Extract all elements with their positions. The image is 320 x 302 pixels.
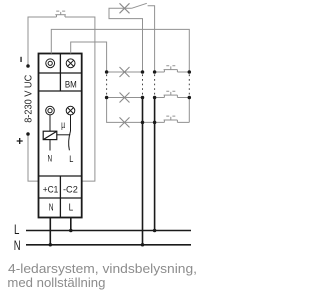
svg-text:µ: µ bbox=[61, 120, 65, 131]
device U1: impulse relay BM, outer case bbox=[39, 54, 82, 218]
push button S1 bbox=[164, 66, 178, 72]
wire: device N terminal to N bus bbox=[49, 218, 51, 245]
svg-text:L: L bbox=[69, 153, 73, 164]
node: plus supply terminal dot bbox=[26, 132, 30, 136]
wire: top lamp terminal to lamp left rail bbox=[71, 42, 107, 72]
dashed rail continuation segments bbox=[107, 74, 190, 95]
label: plus polarity mark bbox=[17, 138, 23, 144]
svg-text:L: L bbox=[69, 202, 74, 213]
switch S4 master (arm open) bbox=[132, 3, 147, 8]
lamp row 1: wire bbox=[107, 71, 143, 73]
svg-text:-C2: -C2 bbox=[63, 185, 78, 195]
lamp E3 bbox=[120, 117, 130, 127]
svg-text:4-ledarsystem, vindsbelysning,: 4-ledarsystem, vindsbelysning, bbox=[8, 261, 197, 276]
relay coil K1 bbox=[43, 131, 57, 139]
wire: minus supply up to reset button bbox=[28, 17, 57, 66]
push button S2 bbox=[164, 91, 178, 97]
terminal symbol: body screw terminal (double circle) bbox=[46, 106, 55, 115]
lamp E2 bbox=[120, 93, 130, 103]
button row 1: wires bbox=[155, 71, 190, 73]
label: minus polarity mark (rotated) bbox=[20, 57, 21, 62]
lamp E1 bbox=[120, 67, 130, 77]
button row 2: wires bbox=[155, 97, 190, 99]
wire: device L terminal to L bus bbox=[70, 218, 72, 231]
svg-text:med nollställning: med nollställning bbox=[7, 275, 105, 290]
svg-text:+C1: +C1 bbox=[43, 185, 59, 195]
wire: lamp terminal down to contact bbox=[70, 115, 72, 131]
svg-text:BM: BM bbox=[65, 78, 77, 89]
lamp row 2: wire bbox=[107, 97, 143, 99]
net N: neutral bus bbox=[26, 244, 191, 246]
terminal symbol: top screw terminal (double circle) bbox=[46, 59, 55, 68]
push button S0 (reset, NO momentary) bbox=[55, 11, 66, 17]
wire: lamp return rail down to N bus bbox=[142, 98, 144, 245]
contact of relay (switch blade) bbox=[69, 131, 71, 150]
lamp E0 at master switch bbox=[120, 3, 130, 13]
node: minus supply terminal dot bbox=[26, 64, 30, 68]
mechanical link coil to contact bbox=[57, 134, 70, 136]
lamp row 3: wire with rail corner bbox=[107, 98, 155, 123]
wire: crossover link upper (lamp right rail feed) bbox=[109, 8, 143, 72]
svg-text:N: N bbox=[48, 152, 53, 163]
svg-text:N: N bbox=[14, 238, 21, 253]
svg-text:8-230 V UC: 8-230 V UC bbox=[23, 74, 35, 122]
device U1: internal dividers bbox=[39, 54, 82, 218]
button row 3: wires with rail corner bbox=[155, 98, 190, 123]
net L: phase bus bbox=[26, 230, 191, 232]
svg-text:N: N bbox=[49, 202, 54, 213]
terminal symbol: body lamp terminal (circle with X) bbox=[66, 106, 75, 115]
wire: terminal to relay coil bbox=[49, 115, 51, 131]
wire: reset button to -C2 terminal bbox=[65, 17, 95, 181]
svg-text:L: L bbox=[14, 222, 19, 237]
wire: switch to button left rail bbox=[148, 6, 155, 72]
push button S3 bbox=[164, 116, 178, 122]
wire: top terminal to push-button right rail bbox=[51, 29, 189, 72]
wire: plus supply down to +C1 terminal bbox=[28, 134, 39, 181]
wire: coil to N label bbox=[49, 140, 51, 151]
wire: button feed rail down to L bus bbox=[154, 98, 156, 231]
terminal symbol: top lamp-output terminal (circle with X) bbox=[66, 59, 75, 68]
